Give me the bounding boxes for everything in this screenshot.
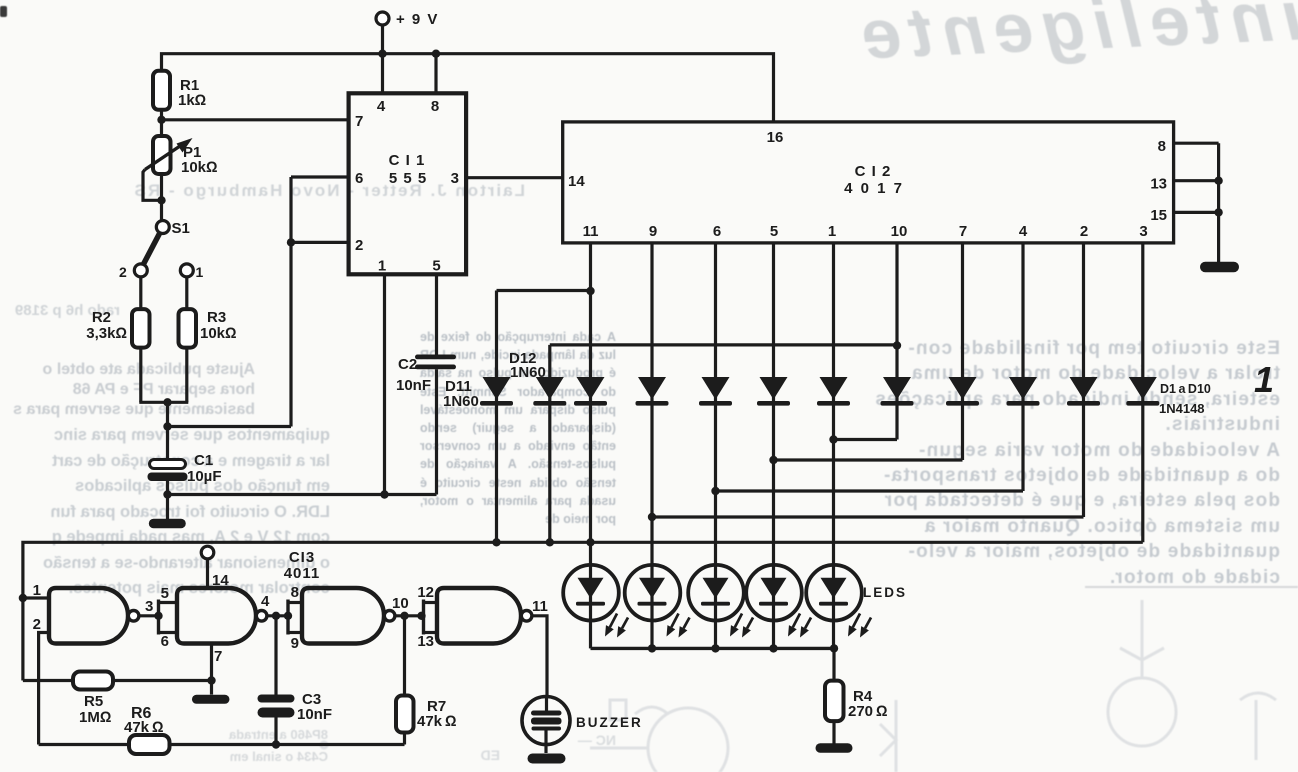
svg-text:5: 5: [161, 585, 169, 602]
+9V supply terminal: [376, 11, 439, 28]
svg-text:6: 6: [713, 223, 721, 240]
wire CI1 pin 5 down: [435, 274, 438, 354]
svg-text:LEDS: LEDS: [863, 585, 907, 600]
svg-text:2: 2: [119, 264, 127, 280]
node CI2 pin 15: [1214, 208, 1222, 216]
node LED bus / R4: [830, 644, 838, 652]
svg-text:9: 9: [291, 635, 299, 652]
LED LED2: [625, 565, 690, 649]
node D12 bottom: [546, 538, 554, 546]
potentiometer P1 10k: [145, 136, 218, 176]
wire CI1 pin 2: [291, 241, 349, 244]
capacitor C1 10uF electrolytic: [148, 452, 222, 485]
diode D2 1N4148: [636, 377, 669, 406]
diode D8 1N4148: [1007, 377, 1040, 406]
diode D1 1N4148: [574, 377, 607, 406]
svg-text:10nF: 10nF: [297, 706, 332, 723]
LED LED1: [563, 565, 628, 649]
resistor R6 47k: [124, 705, 170, 754]
svg-text:13: 13: [417, 633, 434, 650]
node pin7 / R5: [207, 676, 215, 684]
svg-text:1: 1: [378, 258, 386, 275]
wire CI3-A output: [140, 614, 159, 617]
node CI3-A pin1: [19, 594, 27, 602]
wire CI3-D output to buzzer: [533, 616, 547, 697]
node C3 bottom: [272, 740, 280, 748]
node LED bus: [648, 644, 656, 652]
wire CI1 pin 8: [434, 54, 437, 94]
node R2/R3: [163, 398, 171, 406]
svg-text:47k Ω: 47k Ω: [124, 719, 164, 736]
svg-text:+ 9 V: + 9 V: [396, 11, 439, 28]
wire CI2 output column pin 10: [895, 243, 898, 440]
diode D6 1N4148: [881, 377, 914, 406]
wire to CI1 pin2/6 column: [168, 425, 292, 428]
nand gate CI3-B: [159, 572, 271, 665]
svg-text:C I 1: C I 1: [389, 152, 426, 169]
ground R4: [816, 743, 853, 753]
node LED bus: [769, 644, 777, 652]
wire S1-2 to R2: [139, 277, 142, 309]
svg-text:5: 5: [770, 223, 778, 240]
wire R1 to P1: [160, 110, 163, 136]
svg-text:3: 3: [145, 598, 153, 615]
svg-text:10kΩ: 10kΩ: [181, 159, 218, 176]
svg-text:8: 8: [431, 98, 439, 115]
svg-text:R5: R5: [84, 693, 103, 710]
node stair C: [711, 487, 719, 495]
svg-text:4: 4: [377, 98, 386, 115]
wire R3 bottom: [185, 348, 188, 403]
wire sense bus to CI3: [23, 542, 1143, 680]
node +9V / CI1 pin4: [378, 50, 386, 58]
svg-text:10: 10: [392, 595, 409, 612]
LED LED3: [688, 565, 753, 649]
node D11 bottom: [492, 538, 500, 546]
svg-text:8: 8: [291, 584, 299, 601]
diode D9 1N4148: [1067, 377, 1100, 406]
wire S1-1 to R3: [185, 277, 188, 309]
wire LED cathode bus: [591, 647, 835, 650]
node CI1 pin1 ground: [380, 490, 388, 498]
svg-text:4: 4: [1019, 223, 1028, 240]
svg-text:47k Ω: 47k Ω: [417, 713, 457, 730]
LED LED4: [746, 565, 811, 649]
svg-text:1: 1: [828, 223, 836, 240]
wire bottom feedback right: [170, 743, 405, 746]
svg-text:4: 4: [261, 593, 270, 610]
node stair D: [769, 456, 777, 464]
wire bus to R4: [832, 648, 835, 680]
op IC CI1 555 timer: [349, 93, 467, 274]
LED LED5: [806, 565, 871, 649]
svg-text:1MΩ: 1MΩ: [79, 709, 111, 726]
nand gate CI3-D: [417, 584, 548, 650]
node P1 wiper junction: [157, 196, 165, 204]
svg-text:10µF: 10µF: [187, 468, 222, 485]
svg-text:1N60: 1N60: [510, 364, 546, 381]
resistor R3 10k: [179, 309, 237, 348]
node D12 top: [893, 341, 901, 349]
wire CI2 output column pin 9: [650, 243, 653, 566]
ground C1: [149, 519, 186, 529]
svg-text:7: 7: [959, 223, 967, 240]
wire CI2 output column pin 5: [772, 243, 775, 566]
svg-text:9: 9: [649, 223, 657, 240]
wire node to C1: [166, 402, 169, 461]
svg-text:10kΩ: 10kΩ: [200, 325, 237, 342]
node gate C-D link: [417, 612, 425, 620]
wire CI2 pin 8: [1174, 142, 1219, 145]
nand gate CI3-A: [33, 582, 154, 644]
wire CI1 pin 4: [381, 54, 384, 94]
wire CI3-A pin2 input: [39, 633, 49, 745]
svg-text:5: 5: [432, 258, 440, 275]
wire CI2 output column pin 1: [832, 243, 835, 566]
wire CI2 pin 15: [1174, 211, 1219, 214]
diode D7 1N4148: [946, 377, 979, 406]
switch S1: [119, 220, 204, 280]
wire CI1 pin6-pin2 vertical: [289, 177, 292, 427]
svg-text:D1 a D10: D1 a D10: [1160, 382, 1211, 396]
wire CI2 output column pin 2: [1082, 243, 1085, 517]
IC CI3 4011 label: [284, 549, 321, 582]
wire stair pin4 to pin6 column: [716, 489, 1024, 492]
capacitor C2 10nF: [396, 355, 456, 395]
diode D10 1N4148: [1126, 377, 1159, 406]
svg-text:4011: 4011: [284, 565, 321, 582]
diode D12 1N60: [509, 345, 897, 542]
svg-text:C1: C1: [194, 452, 213, 469]
svg-text:CI3: CI3: [289, 549, 315, 566]
CI1 pin labels: [355, 98, 459, 275]
svg-text:1N60: 1N60: [443, 393, 479, 410]
wire stair pin10 to pin1 column: [834, 438, 898, 441]
svg-text:7: 7: [214, 648, 222, 665]
capacitor C3 10nF: [258, 616, 333, 745]
svg-text:BUZZER: BUZZER: [576, 715, 643, 730]
svg-text:11: 11: [583, 223, 599, 240]
node to CI1 pins 2-6: [163, 422, 171, 430]
svg-text:14: 14: [212, 572, 229, 589]
wire C1 bottom: [166, 481, 169, 519]
buzzer BZ1: [522, 697, 643, 754]
node R1/P1/CI1 pin7: [157, 116, 165, 124]
wire CI2 output column pin 11: [589, 243, 592, 566]
wire stair pin7 to pin5 column: [774, 458, 963, 461]
resistor R4 270R: [825, 681, 888, 722]
svg-text:R2: R2: [92, 309, 111, 326]
svg-text:10nF: 10nF: [396, 377, 431, 394]
svg-text:8: 8: [1158, 138, 1166, 155]
wire CI1 pin 1 down: [383, 274, 386, 494]
svg-text:S1: S1: [172, 220, 190, 237]
svg-text:13: 13: [1150, 176, 1167, 193]
ground CI2 pins 8-13-15: [1200, 262, 1239, 273]
svg-text:270 Ω: 270 Ω: [848, 703, 888, 720]
node R7 junction: [400, 612, 408, 620]
node stair B: [648, 513, 656, 521]
svg-text:1: 1: [1254, 359, 1274, 400]
wire CI2 output column pin 6: [714, 243, 717, 566]
wire CI2 output column pin 4: [1021, 243, 1024, 491]
svg-text:R3: R3: [207, 309, 226, 326]
node LED bus: [711, 644, 719, 652]
wire CI2 output column pin 3: [1141, 243, 1144, 542]
resistor R1 1k: [153, 71, 206, 110]
terminal CI3 pin 14: [201, 546, 214, 559]
svg-text:6: 6: [161, 633, 169, 650]
svg-text:15: 15: [1150, 207, 1167, 224]
wire R5 right: [113, 679, 212, 682]
wire R2-R3 junction: [139, 401, 188, 404]
node C1/ground bus: [163, 490, 171, 498]
wire CI1 pin 3 to CI2 pin 14: [466, 176, 563, 179]
diode label D1 a D10: [1159, 382, 1211, 416]
node CI1 pin 2: [287, 238, 295, 246]
node stair E: [829, 435, 837, 443]
svg-text:4 0 1 7: 4 0 1 7: [844, 180, 904, 197]
node gate A-B link: [154, 612, 162, 620]
svg-text:1: 1: [196, 264, 204, 280]
resistor R5 1M: [73, 672, 113, 727]
wire bottom feedback left: [39, 743, 129, 746]
wire R4 to ground: [832, 721, 835, 743]
resistor R2 3.3k: [86, 309, 149, 348]
wire CI3-C output: [396, 614, 424, 617]
wire R2 bottom: [139, 348, 142, 403]
wire CI2 output column pin 7: [961, 243, 964, 460]
svg-text:1kΩ: 1kΩ: [178, 92, 206, 109]
node sense bus col A: [586, 538, 594, 546]
ground buzzer: [528, 754, 566, 764]
svg-text:16: 16: [767, 129, 784, 146]
wire CI2 pin 13: [1174, 179, 1219, 182]
node D11 top: [586, 287, 594, 295]
svg-text:2: 2: [1080, 223, 1088, 240]
svg-text:11: 11: [532, 598, 548, 615]
svg-text:C I 2: C I 2: [855, 163, 892, 180]
wire CI3-B output: [268, 614, 288, 617]
svg-text:12: 12: [417, 584, 434, 601]
node +9V / CI1 pin8: [432, 50, 440, 58]
svg-text:3: 3: [1139, 223, 1147, 240]
wire ground bus to CI1 pin1 and pin5: [168, 493, 437, 496]
diode D4 1N4148: [757, 377, 790, 406]
node CI2 pin 13: [1214, 177, 1222, 185]
wire P1 wiper loop: [143, 170, 162, 201]
diode D3 1N4148: [699, 377, 732, 406]
wire +9V rail: [162, 54, 774, 122]
ground CI3 pin 7: [192, 695, 230, 704]
diode D5 1N4148: [817, 377, 850, 406]
svg-text:14: 14: [568, 173, 585, 190]
wire CI3 pin 14 terminal: [206, 559, 209, 589]
wire CI1 pin 6: [291, 175, 349, 178]
diode D11 1N60: [443, 291, 591, 543]
node gate B-C link: [284, 612, 292, 620]
svg-text:3: 3: [451, 170, 459, 187]
wire stair pin2 to pin9 column: [652, 515, 1084, 518]
svg-text:10: 10: [891, 223, 908, 240]
wire CI2 right pins to ground: [1217, 143, 1220, 262]
svg-text:2: 2: [355, 237, 363, 254]
svg-text:2: 2: [33, 616, 41, 633]
IC CI2 4017 decade counter: [563, 122, 1174, 243]
wire CI3-A pin1 input: [23, 596, 49, 599]
svg-text:C2: C2: [398, 356, 417, 373]
wire CI3 pin 7 to ground: [210, 644, 213, 695]
wire R5 left: [23, 679, 73, 682]
node C3 junction: [272, 612, 280, 620]
svg-text:3,3kΩ: 3,3kΩ: [86, 325, 127, 342]
CI2 pin labels: [568, 129, 1167, 240]
resistor R7 47k: [396, 616, 457, 745]
svg-text:1N4148: 1N4148: [1159, 401, 1205, 416]
wire C2 bottom: [435, 369, 438, 494]
svg-text:5 5 5: 5 5 5: [389, 170, 427, 187]
nand gate CI3-C: [288, 584, 409, 652]
wire +9V terminal lead: [381, 25, 384, 54]
wire P1 to S1: [160, 174, 163, 221]
wire CI1 pin 7: [162, 118, 349, 121]
svg-text:7: 7: [355, 113, 363, 130]
svg-text:6: 6: [355, 170, 363, 187]
